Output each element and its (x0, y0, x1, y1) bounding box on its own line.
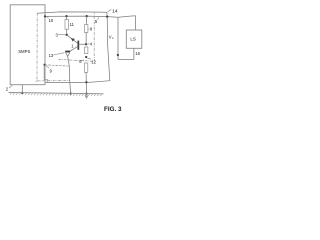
node: output terminal dot on SMPS edge (44, 15, 46, 17)
svg-text:10: 10 (49, 18, 54, 23)
transistor Q1 emitter line (67, 35, 78, 43)
wire: base to divider node (79, 43, 86, 45)
svg-text:SMPS: SMPS (18, 49, 30, 54)
node: divider top tap dot (86, 15, 88, 17)
diode 13 triangle (66, 52, 70, 56)
transistor Q1 base bar (78, 41, 80, 50)
wire: dot to resistor 11 (66, 16, 68, 19)
svg-text:FIG. 3: FIG. 3 (104, 106, 122, 113)
Vs measure rail (right) (117, 17, 119, 59)
wire: LS bottom return (118, 48, 134, 59)
wire 14: upper bypass wire (37, 12, 110, 83)
wire: sense wire 9 (dashed) (45, 65, 70, 66)
wire: SMPS ground stub (21, 85, 23, 93)
wire: tap to resistor 8 (85, 16, 87, 24)
label 10 leader (47, 17, 48, 19)
resistor 11 (65, 20, 69, 30)
label 14 leader (108, 9, 112, 11)
resistor 8 (85, 25, 88, 33)
node: dot on Vs rail (117, 54, 119, 56)
wire: diode to chassis (68, 56, 71, 93)
wire: sense return notch (44, 65, 48, 82)
node: return wire dot (85, 81, 87, 83)
wire: LS feed drop (135, 16, 137, 30)
svg-text:12: 12 (91, 59, 96, 64)
resistor 6 (lower divider element) (84, 63, 87, 72)
wire: output plus wire (top rail) (45, 16, 136, 18)
label 6 leader (82, 59, 84, 62)
dashed detection-circuit box 9 (36, 12, 95, 81)
node 3: emitter node dot (66, 34, 68, 36)
svg-text:11: 11 (70, 22, 75, 27)
svg-text:LS: LS (130, 36, 136, 41)
node: chassis dot left (21, 92, 23, 94)
ground arrow below chassis (85, 95, 89, 99)
node: dot where bypass rail crosses output wire (106, 15, 108, 17)
label 13 leader (53, 53, 64, 55)
label 12 leader (87, 57, 91, 60)
resistor 7 (upper divider element) (85, 47, 88, 54)
wire: resistor 11 to emitter node (66, 29, 68, 35)
svg-text:13: 13 (49, 53, 54, 58)
wire: resistor 8 to node 4 (85, 33, 87, 45)
wire: divider bottom to chassis (85, 72, 87, 93)
node: dot for sense wire on SMPS edge (43, 64, 45, 66)
node 12: divider mid dot (85, 56, 87, 58)
node: chassis dot of transistor branch (70, 92, 72, 94)
node: chassis dot (85, 93, 87, 95)
SMPS box (power supply block) (10, 5, 45, 85)
chassis earth line (9, 92, 104, 93)
transistor Q1 emitter arrow (71, 38, 75, 41)
label 3 leader (58, 34, 66, 36)
LS box (126, 30, 142, 48)
label 8 leader (88, 28, 89, 30)
transistor Q1 collector line (70, 47, 78, 52)
svg-text:14: 14 (112, 8, 118, 14)
background (0, 0, 149, 120)
label 9 leader (46, 66, 49, 69)
label 5 leader (97, 18, 98, 20)
diode 13 cathode bar (65, 51, 70, 52)
label 4 leader (88, 43, 90, 45)
node: resistor 11 tap dot (65, 15, 67, 17)
chassis hatching (10, 93, 102, 97)
node 4: base node dot (85, 43, 87, 45)
label 2 leader (9, 85, 12, 88)
svg-text:16: 16 (135, 51, 140, 56)
